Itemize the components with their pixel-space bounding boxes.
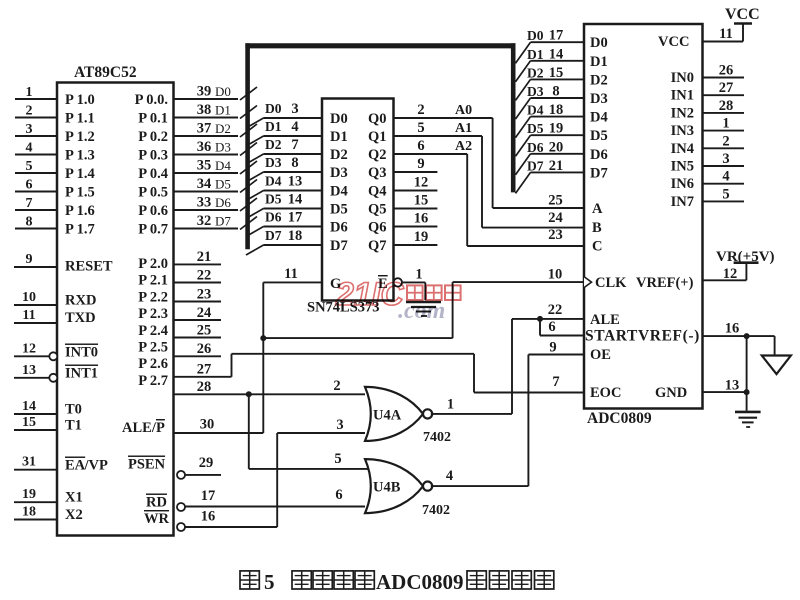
svg-text:D7: D7 [215,214,231,229]
svg-text:ADC0809: ADC0809 [587,410,652,427]
AT89C52 pin 30 (ALE/P) [122,417,263,437]
svg-text:39: 39 [197,84,212,100]
svg-text:8: 8 [291,155,298,171]
data bus right vertical (ADC data bus) [511,43,516,192]
ADC pin 12 VREF(+) stub [703,266,747,282]
svg-text:D3: D3 [590,91,608,107]
svg-text:10: 10 [548,267,563,283]
svg-text:T1: T1 [65,418,82,434]
svg-text:7: 7 [291,137,298,153]
ADC IN5 input, pin 3 [671,151,744,175]
svg-text:D1: D1 [527,47,544,62]
svg-text:D4: D4 [590,110,608,126]
svg-text:6: 6 [417,138,424,154]
svg-text:D2: D2 [527,65,544,80]
ADC D1 input stub, pin 14 [516,46,608,82]
AT89C52 pin 1 (P1.0) [15,85,95,108]
AT89C52 pin 17 (RD) [146,488,365,511]
AT89C52 pin 11 (TXD) [14,308,96,326]
svg-text:D6: D6 [590,147,608,163]
U4B input 6 label [335,487,342,503]
wire A2 to ADC pin C [467,154,584,246]
svg-text:1: 1 [26,85,33,100]
ADC D3 input stub, pin 8 [516,84,608,120]
svg-text:Q5: Q5 [368,202,387,218]
AT89C52 pin 31 (EA/VP) [14,455,108,474]
svg-text:15: 15 [414,193,429,209]
ADC IN6 input, pin 4 [671,169,744,193]
svg-text:5: 5 [417,120,424,136]
svg-text:34: 34 [197,176,212,192]
svg-text:6: 6 [335,487,342,503]
svg-text:25: 25 [197,322,212,338]
svg-text:27: 27 [197,362,212,378]
AT89C52 pin 19 (X1) [14,487,83,505]
ground (signal triangle) [762,336,791,374]
svg-text:22: 22 [197,267,212,283]
ADC D2 input stub, pin 15 [516,65,608,101]
AT89C52 pin 4 (P1.3) [15,141,95,164]
svg-text:P 0.5: P 0.5 [138,185,168,201]
svg-text:P 2.6: P 2.6 [138,356,168,372]
svg-text:C: C [592,239,602,255]
svg-text:D3: D3 [265,155,282,170]
svg-text:OE: OE [590,347,611,363]
svg-text:RESET: RESET [65,259,113,275]
latch Q3 output, pin 9 [368,156,437,181]
ADC pin 11 VCC stub [703,26,744,42]
svg-text:31: 31 [22,455,36,470]
svg-text:ALE/: ALE/ [122,420,157,436]
svg-text:25: 25 [548,193,563,209]
AT89C52 pin 16 (WR) [144,509,277,532]
svg-text:5: 5 [722,186,729,202]
svg-text:P 0.7: P 0.7 [138,222,168,238]
svg-text:2: 2 [722,133,729,149]
svg-text:D0: D0 [330,111,348,127]
AT89C52 pin 36 (P0.3) stub to bus, label D3 [138,139,257,164]
svg-text:TXD: TXD [65,310,96,326]
ADC pin A (25) name [592,201,603,217]
svg-text:P 1.5: P 1.5 [65,185,95,201]
svg-text:16: 16 [414,211,429,227]
svg-text:Q2: Q2 [368,147,387,163]
svg-text:38: 38 [197,102,212,118]
svg-text:9: 9 [417,156,424,172]
wire A0 to ADC pin A [493,118,584,209]
svg-text:24: 24 [548,210,563,226]
svg-text:14: 14 [22,399,36,414]
svg-text:5: 5 [264,570,275,594]
svg-text:D7: D7 [590,165,608,181]
svg-text:Q6: Q6 [368,220,387,236]
svg-text:14: 14 [288,192,303,208]
svg-text:IN6: IN6 [671,176,694,192]
AT89C52 pin 18 (X2) [14,505,83,524]
svg-text:D2: D2 [590,72,608,88]
AT89C52 pin 5 (P1.4) [15,159,95,182]
svg-text:P 2.0: P 2.0 [138,256,168,272]
svg-text:26: 26 [719,63,734,79]
watermark 21IC (decorative) [335,276,461,324]
svg-text:P 0.0.: P 0.0. [135,92,168,108]
svg-text:D7: D7 [527,158,544,173]
ADC IN1 input, pin 27 [671,80,744,104]
ground (latch E) [406,302,441,316]
latch D7 input stub, pin 18 [246,228,348,255]
AT89C52 pin 24 (P2.3) [138,305,221,322]
svg-text:12: 12 [22,341,36,356]
wire U4B output pin 4 to ADC OE [431,340,584,487]
svg-text:14: 14 [549,46,564,62]
junction VREF(-) [744,333,750,339]
svg-text:1: 1 [415,267,422,283]
latch D3 input stub, pin 8 [246,155,348,182]
svg-text:1: 1 [722,116,729,132]
svg-text:D7: D7 [265,228,282,243]
svg-text:P 1.4: P 1.4 [65,166,95,182]
latch U2 SN74LS373 body [307,99,394,316]
latch Q1 output, pin 5 [368,120,482,145]
ADC EOC name [590,385,621,401]
U4A input 2 label [333,378,340,394]
svg-text:P 2.4: P 2.4 [138,323,168,339]
AT89C52 pin 39 (P0.0) stub to bus, label D0 [135,84,257,109]
svg-text:P 1.0: P 1.0 [65,92,95,108]
AT89C52 pin 21 (P2.0) [138,249,221,272]
svg-text:P 0.2: P 0.2 [138,129,168,145]
AT89C52 pin 34 (P0.5) stub to bus, label D5 [138,176,257,201]
svg-text:3: 3 [291,101,298,117]
svg-text:D4: D4 [265,174,282,189]
svg-text:D0: D0 [590,35,608,51]
svg-text:7: 7 [552,374,559,390]
svg-text:29: 29 [199,455,214,471]
AT89C52 pin 15 (T1) [14,415,82,434]
AT89C52 pin 3 (P1.2) [15,122,95,145]
svg-text:WR: WR [144,511,170,527]
svg-text:IN1: IN1 [671,88,694,104]
svg-text:VCC: VCC [725,6,760,23]
U4B input 5 label and wire from P2.7 [249,394,368,469]
svg-text:28: 28 [197,379,212,395]
junction CLK branch [260,335,266,341]
ADC ALE name [590,312,620,328]
svg-text:ADC0809: ADC0809 [376,570,464,594]
svg-text:19: 19 [22,487,36,502]
svg-text:28: 28 [719,98,734,114]
svg-text:11: 11 [22,308,35,323]
svg-text:9: 9 [26,252,33,267]
wire P2.6 to ADC EOC [232,354,585,393]
svg-text:IN7: IN7 [671,194,694,210]
latch Q7 output, pin 19 [368,229,437,254]
svg-text:18: 18 [288,228,303,244]
svg-text:P 0.6: P 0.6 [138,203,168,219]
svg-text:RD: RD [146,495,167,511]
svg-text:D7: D7 [330,238,348,254]
svg-text:2: 2 [26,104,33,119]
svg-text:36: 36 [197,139,212,155]
ADC pin 16 VREF(-) stub [703,321,775,337]
svg-text:D4: D4 [527,103,544,118]
svg-text:5: 5 [334,451,341,467]
ADC GND name [655,385,687,401]
ADC D5 input stub, pin 19 [516,121,608,157]
svg-text:T0: T0 [65,402,82,418]
svg-text:STARTVREF(-): STARTVREF(-) [585,328,700,345]
svg-text:3: 3 [722,151,729,167]
svg-text:23: 23 [197,286,212,302]
wire ALE to ADC CLK [263,267,584,339]
svg-text:21: 21 [549,158,564,174]
svg-text:13: 13 [22,363,36,378]
svg-text:D5: D5 [215,177,231,192]
svg-text:X2: X2 [65,507,83,523]
svg-text:Q4: Q4 [368,184,387,200]
U4A input 3 label [336,417,343,433]
svg-text:7: 7 [26,196,33,211]
svg-text:B: B [592,220,602,236]
svg-text:EOC: EOC [590,385,621,401]
svg-text:Q1: Q1 [368,129,387,145]
svg-text:ALE: ALE [590,312,620,328]
latch D5 input stub, pin 14 [246,192,348,219]
svg-text:35: 35 [197,158,212,174]
svg-text:VREF(+): VREF(+) [636,275,694,291]
ADC START / VREF(-) name [585,328,700,345]
earth ground symbol [735,412,761,427]
svg-text:Q3: Q3 [368,165,387,181]
svg-text:27: 27 [719,80,734,96]
svg-text:P 0.1: P 0.1 [138,111,168,127]
svg-text:P 2.2: P 2.2 [138,289,168,305]
AT89C52 pin 8 (P1.7) [15,215,95,238]
svg-text:P 0.3: P 0.3 [138,148,168,164]
svg-text:P 0.4: P 0.4 [138,166,168,182]
ADC IN7 input, pin 5 [671,186,744,210]
junction P2.7 to NOR gates [246,391,252,397]
ADC D6 input stub, pin 20 [516,139,608,175]
svg-text:D2: D2 [330,147,348,163]
AT89C52 pin 33 (P0.6) stub to bus, label D6 [138,195,257,220]
svg-text:P 1.6: P 1.6 [65,203,95,219]
latch Q4 output, pin 12 [368,175,437,200]
svg-text:12: 12 [414,175,429,191]
svg-text:D1: D1 [590,54,608,70]
svg-text:PSEN: PSEN [128,457,166,473]
svg-text:13: 13 [288,174,303,190]
svg-text:4: 4 [26,141,33,156]
svg-text:17: 17 [549,28,564,44]
ADC D0 input stub, pin 17 [516,28,608,64]
svg-text:4: 4 [722,169,729,185]
svg-text:D3: D3 [330,165,348,181]
svg-text:P 1.7: P 1.7 [65,222,95,238]
VR(+5V) power symbol [716,249,775,280]
ADC U3 ADC0809 body [584,24,703,427]
svg-text:IN3: IN3 [671,123,694,139]
latch D1 input stub, pin 4 [246,119,348,146]
svg-text:Q0: Q0 [368,111,387,127]
svg-text:23: 23 [548,227,563,243]
latch Q5 output, pin 15 [368,193,437,218]
svg-text:D1: D1 [215,103,231,118]
AT89C52 pin 22 (P2.1) [138,267,221,288]
AT89C52 pin 12 (INT0) [14,341,98,360]
AT89C52 pin 23 (P2.2) [138,286,221,305]
svg-text:D3: D3 [527,84,544,99]
svg-text:D6: D6 [265,210,282,225]
svg-text:INT1: INT1 [65,366,98,382]
latch Q0 output, pin 2 [368,102,493,127]
junction ALE/START [537,316,543,322]
ADC D4 input stub, pin 18 [516,102,608,138]
svg-text:P 2.7: P 2.7 [138,373,168,389]
AT89C52 pin 9 (RESET) [14,252,113,275]
svg-text:26: 26 [197,341,212,357]
svg-text:GND: GND [655,385,687,401]
svg-text:P 2.1: P 2.1 [138,273,168,289]
wire to ADC START pin 6 [540,319,584,336]
svg-text:15: 15 [549,65,564,81]
svg-text:P 1.2: P 1.2 [65,129,95,145]
svg-text:18: 18 [549,102,564,118]
ADC pin 13 GND stub [703,378,747,394]
svg-text:5: 5 [26,159,33,174]
svg-text:A1: A1 [455,121,472,136]
svg-text:RXD: RXD [65,293,96,309]
latch pin 1 (E output-enable) with bubble [378,267,425,300]
ADC IN0 input, pin 26 [671,63,744,87]
svg-text:20: 20 [549,139,564,155]
svg-text:2: 2 [333,378,340,394]
latch Q2 output, pin 6 [368,138,467,163]
svg-text:D1: D1 [330,129,348,145]
svg-text:1: 1 [447,397,454,413]
wire A1 to ADC pin B [482,136,584,228]
data bus thick top bar [245,43,515,48]
ADC IN4 input, pin 2 [671,133,744,157]
svg-text:X1: X1 [65,490,83,506]
ADC pin 10 CLK input triangle [584,275,627,291]
latch D4 input stub, pin 13 [246,174,348,201]
svg-text:9: 9 [549,340,556,356]
svg-text:P 2.5: P 2.5 [138,340,168,356]
latch D2 input stub, pin 7 [246,137,348,164]
svg-text:4: 4 [446,468,453,484]
ADC IN3 input, pin 1 [671,116,744,140]
svg-text:IN5: IN5 [671,159,694,175]
svg-text:P: P [156,420,165,436]
node A2 [455,139,472,154]
svg-text:.com: .com [398,298,445,324]
svg-text:10: 10 [22,290,36,305]
svg-text:D0: D0 [265,101,282,116]
svg-text:33: 33 [197,195,212,211]
latch Q6 output, pin 16 [368,211,437,236]
svg-text:37: 37 [197,121,212,137]
ADC D7 input stub, pin 21 [516,158,608,194]
svg-text:32: 32 [197,213,212,229]
wire U4A output pin 1 to ADC ALE/START [431,302,584,414]
wire VREF(-) to GND to earth [746,336,748,411]
AT89C52 pin 28 (P2.7) [138,373,365,395]
svg-text:24: 24 [197,305,212,321]
svg-text:D5: D5 [590,128,608,144]
svg-text:IN4: IN4 [671,141,694,157]
svg-text:VR(+5V): VR(+5V) [716,249,775,265]
AT89C52 pin 37 (P0.2) stub to bus, label D2 [138,121,257,146]
ADC pin B (24) name [592,220,602,236]
svg-text:D4: D4 [330,184,348,200]
svg-text:/VP: /VP [84,458,109,474]
ADC VCC name [658,34,689,50]
svg-text:AT89C52: AT89C52 [74,64,137,81]
svg-text:A: A [592,201,603,217]
svg-text:D6: D6 [330,220,348,236]
svg-text:D5: D5 [527,121,544,136]
svg-text:8: 8 [26,215,33,230]
junction GND [744,389,750,395]
svg-text:D5: D5 [265,192,282,207]
svg-text:15: 15 [22,415,36,430]
caption: figure 5 title [240,570,554,594]
svg-text:2: 2 [417,102,424,118]
AT89C52 pin 27 (P2.6) [138,356,231,377]
svg-text:3: 3 [26,122,33,137]
ADC VREF(+) name [636,275,694,291]
svg-text:6: 6 [548,319,555,335]
svg-text:D1: D1 [265,119,282,134]
svg-text:19: 19 [414,229,429,245]
svg-text:U4A: U4A [373,407,402,423]
svg-text:IN2: IN2 [671,105,694,121]
AT89C52 pin 7 (P1.6) [15,196,95,219]
AT89C52 pin 38 (P0.1) stub to bus, label D1 [138,102,257,127]
AT89C52 pin 2 (P1.1) [15,104,95,127]
AT89C52 pin 10 (RXD) [14,290,96,309]
svg-text:6: 6 [26,178,33,193]
AT89C52 pin 26 (P2.5) [138,340,221,358]
svg-text:21: 21 [197,249,212,265]
svg-text:30: 30 [200,417,215,433]
svg-text:D6: D6 [527,140,544,155]
latch D0 input stub, pin 3 [246,101,348,128]
svg-text:Q7: Q7 [368,238,387,254]
AT89C52 pin 35 (P0.4) stub to bus, label D4 [138,158,257,183]
wire ALE/P to latch G and ADC CLK vertical [262,282,264,433]
svg-text:CLK: CLK [595,275,627,291]
latch pin 11 (G enable) [263,266,341,292]
svg-text:EA: EA [65,458,86,474]
svg-text:INT0: INT0 [65,345,98,361]
node A0 [455,103,472,118]
svg-text:17: 17 [201,488,216,504]
AT89C52 pin 25 (P2.4) [138,322,221,339]
AT89C52 pin 6 (P1.5) [15,178,95,201]
svg-text:VCC: VCC [658,34,689,50]
ADC OE name [590,347,611,363]
svg-text:7402: 7402 [422,503,450,518]
svg-text:16: 16 [201,509,216,525]
svg-text:17: 17 [288,210,303,226]
svg-text:IN0: IN0 [671,70,694,86]
svg-text:11: 11 [284,266,298,282]
MCU U1 AT89C52 body [57,64,174,536]
svg-text:19: 19 [549,121,564,137]
svg-text:A0: A0 [455,103,472,118]
